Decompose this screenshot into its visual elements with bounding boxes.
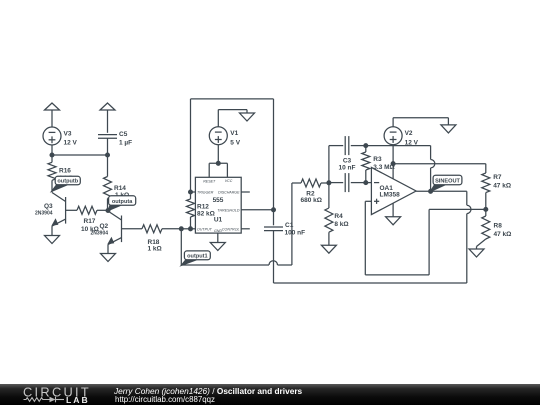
node Q2 collector junction <box>106 209 110 213</box>
resistor R8 47 k <box>482 209 512 239</box>
node V2 rail junction <box>391 162 395 166</box>
wire THRESHOLD pin <box>241 209 273 211</box>
wire loop right down to THRESHOLD <box>273 99 275 210</box>
svg-text:2N3904: 2N3904 <box>35 211 53 217</box>
wire output1 drop <box>180 229 182 265</box>
power flag VCC above V3 <box>45 103 60 127</box>
IC U1 555 timer <box>195 177 241 233</box>
svg-text:Q2: Q2 <box>100 223 109 230</box>
power flag VCC above C5 <box>100 103 115 133</box>
resistor R18 1 k <box>122 225 182 253</box>
transistor Q3 2N3904 <box>35 193 66 227</box>
wire node A up <box>328 146 330 183</box>
net flag outputa <box>108 196 136 211</box>
node divider tap junction <box>484 208 488 212</box>
svg-text:R4: R4 <box>334 213 343 220</box>
resistor R3 3.3 M <box>362 146 395 183</box>
wire V2 rail to R7 (crossed by feedback hop) <box>393 163 486 165</box>
svg-text:C1: C1 <box>285 222 294 229</box>
voltage source V3 12 V <box>43 127 78 147</box>
capacitor C1 100 nF <box>264 222 305 236</box>
wire GND pin <box>217 233 219 242</box>
wire R8 to ground <box>477 239 486 249</box>
node R12/OUTPUT junction <box>189 227 193 231</box>
wire node A to C3 top <box>329 145 343 147</box>
svg-text:R17: R17 <box>84 218 96 225</box>
credit line <box>114 386 302 396</box>
resistor R12 82 k <box>187 192 195 229</box>
node V1 supply junction <box>216 161 220 165</box>
wire VCC pin <box>226 163 228 177</box>
wire C5 to rail <box>107 138 109 155</box>
node rail/C5 junction <box>106 153 110 157</box>
wire output1 to R2 riser (hops over C1 wire) <box>181 183 292 265</box>
wire loop top <box>191 98 274 100</box>
capacitor C3 10 nF (top) <box>339 136 356 172</box>
svg-text:680 kΩ: 680 kΩ <box>301 197 322 204</box>
svg-text:10 nF: 10 nF <box>339 165 356 172</box>
wire trigger loop up <box>190 99 192 192</box>
svg-text:Q3: Q3 <box>44 203 53 210</box>
net flag SINEOUT <box>431 175 462 191</box>
wire V1 top to ground <box>218 110 247 127</box>
svg-text:outputb: outputb <box>57 178 78 184</box>
net flag outputb <box>52 176 81 191</box>
wire TRIGGER pin <box>191 191 196 193</box>
voltage source V2 12 V <box>384 127 419 147</box>
svg-text:V3: V3 <box>64 131 72 138</box>
svg-text:555: 555 <box>213 197 224 204</box>
svg-text:RESET: RESET <box>203 179 216 183</box>
svg-text:2N3904: 2N3904 <box>91 231 109 237</box>
svg-text:U1: U1 <box>214 216 223 223</box>
svg-text:LM358: LM358 <box>380 191 401 198</box>
svg-text:OUTPUT: OUTPUT <box>197 228 213 232</box>
ground below op-amp <box>386 217 401 225</box>
wire V1 to chip top <box>217 145 219 164</box>
svg-text:outputa: outputa <box>112 199 133 205</box>
svg-text:R7: R7 <box>493 174 502 181</box>
transistor Q2 2N3904 <box>91 211 122 245</box>
label R4 8 k <box>334 213 348 228</box>
svg-text:TRIGGER: TRIGGER <box>197 191 214 195</box>
ground at V2 <box>441 125 456 133</box>
ground below R8 <box>469 249 484 257</box>
svg-text:1 kΩ: 1 kΩ <box>148 246 162 253</box>
svg-text:47 kΩ: 47 kΩ <box>494 231 512 238</box>
svg-text:R8: R8 <box>494 223 503 230</box>
resistor R2 680 k <box>292 179 329 204</box>
wire C1 down to feedback <box>273 231 275 283</box>
svg-text:R3: R3 <box>373 156 382 163</box>
svg-text:THRESHOLD: THRESHOLD <box>217 209 240 213</box>
wire C3 top to node B <box>351 145 366 147</box>
resistor R7 47 k <box>482 164 511 210</box>
wire RESET pin <box>208 163 210 177</box>
ground below R4 <box>321 245 336 253</box>
CircuitLab logo wordmark <box>23 384 91 405</box>
ground below Q2 <box>101 254 116 262</box>
wire op-amp output <box>416 190 467 192</box>
node output junction <box>429 189 433 193</box>
wire op-amp V- pin <box>392 203 394 217</box>
svg-text:SINEOUT: SINEOUT <box>435 178 460 184</box>
wire DISCHARGE stub <box>241 191 250 193</box>
resistor R17 10 k <box>66 206 108 233</box>
svg-text:47 kΩ: 47 kΩ <box>493 182 511 189</box>
ground below Q3 <box>45 236 60 244</box>
wire V2 top to ground <box>393 118 448 127</box>
svg-text:GND: GND <box>214 229 222 233</box>
capacitor C3 lower plate pair <box>345 173 349 192</box>
node B junction <box>364 144 368 148</box>
wire lower cap to node C <box>351 182 366 184</box>
resistor R4 8 k <box>325 183 333 245</box>
svg-text:LAB: LAB <box>66 395 90 405</box>
svg-text:DISCHARGE: DISCHARGE <box>218 191 240 195</box>
wire CONTROL stub <box>241 228 250 230</box>
capacitor C5 1 uF <box>98 131 132 147</box>
svg-text:V1: V1 <box>230 130 238 137</box>
wire node A to lower cap <box>329 182 343 184</box>
svg-text:C5: C5 <box>119 131 128 138</box>
voltage source V1 5 V <box>209 127 240 147</box>
svg-text:VCC: VCC <box>225 179 233 183</box>
wire V3 to rail <box>51 145 53 155</box>
resistor R16 <box>48 155 73 192</box>
node THRESHOLD junction <box>272 208 276 212</box>
wire feedback bottom <box>274 282 467 284</box>
net flag output1 <box>181 251 210 266</box>
ground at V1 <box>240 113 255 121</box>
svg-text:12 V: 12 V <box>64 140 78 147</box>
node TRIGGER junction <box>189 190 193 194</box>
svg-text:R12: R12 <box>197 204 209 211</box>
wire node B to output (hops over V2 rail) <box>366 146 435 192</box>
svg-text:V2: V2 <box>405 130 413 137</box>
wire supply bar <box>209 162 227 164</box>
node A junction <box>327 181 331 185</box>
svg-text:100 nF: 100 nF <box>285 230 306 237</box>
logo resistor+diode squiggle <box>24 397 65 403</box>
svg-text:C3: C3 <box>343 157 352 164</box>
label R12 82 k <box>197 204 215 218</box>
wire output down (hops over divider tap) <box>467 191 471 283</box>
resistor R14 1 k <box>104 155 130 211</box>
svg-text:1 µF: 1 µF <box>119 140 132 147</box>
svg-text:5 V: 5 V <box>230 139 240 146</box>
wire Q3 emitter to ground <box>51 226 53 235</box>
wire junction to 555 OUTPUT <box>181 228 195 230</box>
svg-text:output1: output1 <box>187 253 208 259</box>
wire rail V3-C5 <box>52 154 108 156</box>
node C junction <box>364 181 368 185</box>
node V3/rail junction <box>50 153 54 157</box>
wire threshold to C1 <box>273 210 275 226</box>
CircuitLab footer bar <box>0 384 540 405</box>
url line <box>115 395 215 404</box>
wire non-inverting input loop <box>365 201 486 275</box>
svg-text:82 kΩ: 82 kΩ <box>197 211 215 218</box>
svg-text:R16: R16 <box>59 167 71 174</box>
svg-text:CONTROL: CONTROL <box>222 227 240 231</box>
wire op-amp V+ pin <box>392 144 394 179</box>
svg-text:8 kΩ: 8 kΩ <box>334 221 348 228</box>
op-amp OA1 LM358 <box>371 167 416 214</box>
node R18/output1 junction <box>179 227 183 231</box>
wire Q2 emitter to ground <box>107 245 109 254</box>
ground below U1 <box>210 243 225 251</box>
wire node C to inverting input <box>366 182 372 184</box>
